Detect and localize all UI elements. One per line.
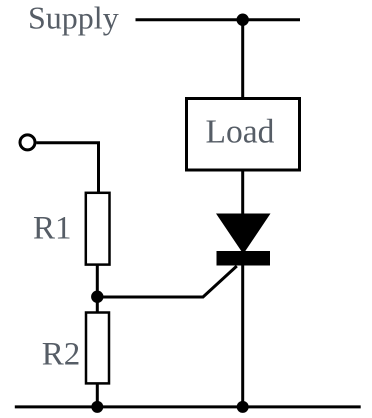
wire gate to divider node: [97, 266, 237, 297]
svg-text:R1: R1: [33, 210, 72, 246]
load box: [187, 99, 300, 171]
junction divider node: [91, 291, 103, 303]
svg-text:Supply: Supply: [28, 0, 119, 36]
wire R1 to R2: [96, 265, 99, 313]
resistor R2: [86, 313, 109, 384]
junction bottom right node: [237, 401, 249, 413]
junction top node: [237, 14, 249, 26]
wire thyristor cathode to bottom rail: [241, 266, 244, 407]
wire top supply rail: [136, 18, 301, 21]
wire load to thyristor anode: [241, 170, 244, 215]
wire supply to load: [241, 20, 244, 100]
terminal input circle: [20, 135, 35, 150]
thyristor cathode bar: [217, 251, 271, 266]
wire bottom rail: [15, 405, 361, 408]
junction bottom left node: [91, 401, 103, 413]
resistor R1: [86, 193, 110, 265]
wire input to R1: [36, 143, 98, 193]
wire R2 to bottom rail: [96, 383, 99, 407]
svg-text:Load: Load: [206, 114, 275, 151]
thyristor anode triangle: [216, 214, 271, 255]
svg-text:R2: R2: [42, 337, 81, 373]
